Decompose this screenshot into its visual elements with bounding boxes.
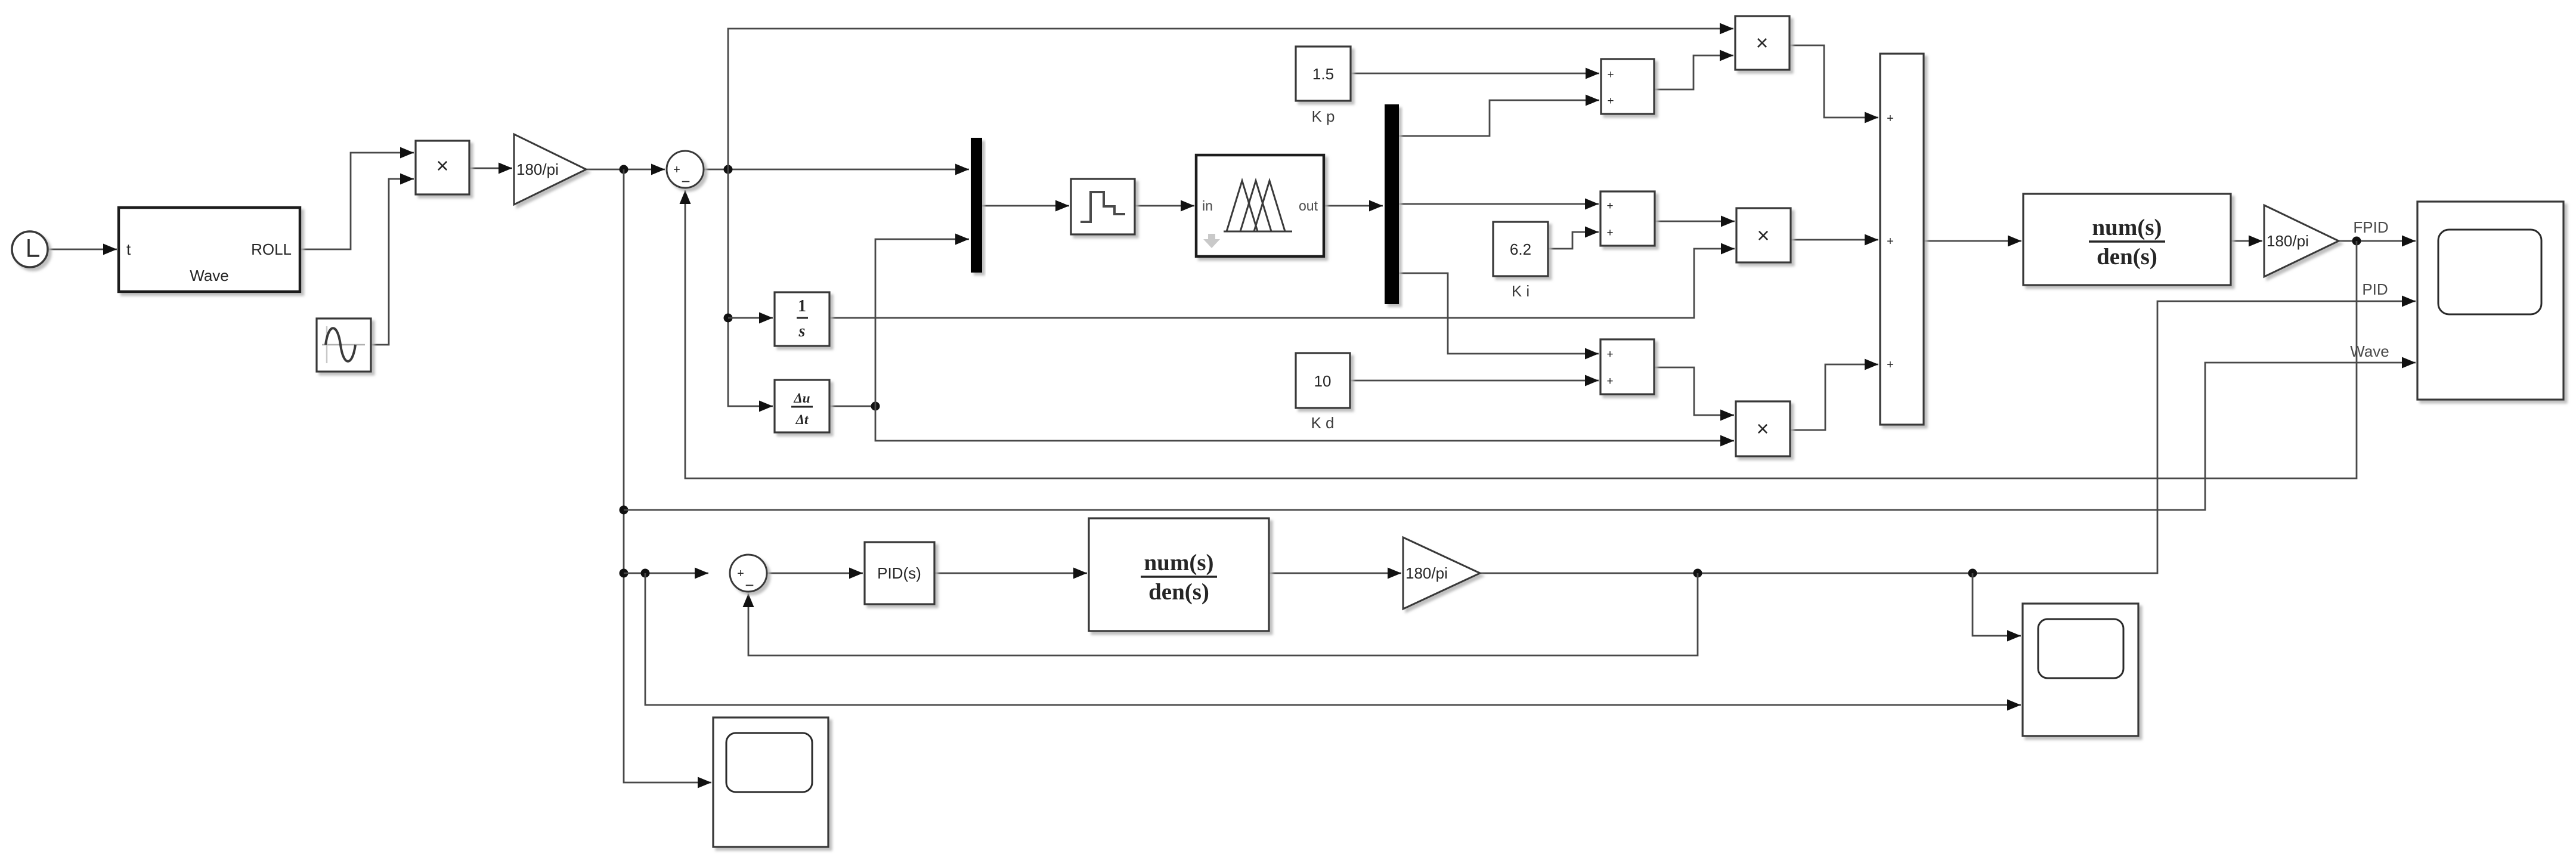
svg-text:FPID: FPID (2353, 218, 2388, 236)
wire Wave to scope2 in2 (645, 573, 2021, 711)
wire PID signal to scope2 in1 (1973, 573, 2021, 642)
transfer fcn num(s)/den(s) (2023, 194, 2231, 285)
svg-text:ROLL: ROLL (251, 240, 292, 258)
svg-text:PID(s): PID(s) (877, 564, 921, 582)
svg-text:+: + (673, 163, 680, 177)
wire Wave ROLL to product in1 (300, 147, 414, 250)
svg-text:Δt: Δt (795, 412, 809, 427)
wire demux out1 to sum A (1399, 95, 1599, 137)
wire sum A to product P (1654, 50, 1733, 90)
label K p (1311, 107, 1335, 125)
svg-text:+: + (737, 567, 744, 580)
wire constant Kp to sum A (1351, 68, 1599, 79)
svg-text:+: + (1606, 375, 1613, 388)
product X0 (416, 141, 469, 194)
fuzzy logic controller (1196, 155, 1324, 256)
svg-text:×: × (1756, 416, 1769, 441)
wire sum C to product D (1654, 367, 1734, 421)
wire constant Ki to sum B (1548, 227, 1599, 249)
svg-text:+: + (1606, 227, 1613, 239)
gain 180/pi G3 (2264, 205, 2339, 277)
wire product D to big sum in3 (1790, 359, 1878, 431)
wire integrator out to product Ki (829, 243, 1735, 318)
svg-text:+: + (1887, 358, 1894, 372)
svg-text:K i: K i (1512, 282, 1529, 300)
wire clock to Wave (48, 244, 117, 255)
wire mux to saturation (982, 200, 1069, 212)
gain 180/pi G2 (1403, 537, 1480, 609)
label Wave (2350, 342, 2389, 360)
subsystem Wave (119, 208, 300, 292)
wire transfer fcn 2 to gain 2 (1269, 568, 1401, 579)
wire Wave signal to scope1 (624, 357, 2416, 511)
wire fuzzy to demux (1324, 200, 1383, 212)
demux (1385, 104, 1399, 304)
wire gain to sum S1 (586, 164, 665, 175)
wire constant Kd to sum C (1350, 375, 1599, 386)
wire error to product Kp (top rail) (728, 23, 1733, 170)
svg-text:+: + (1887, 112, 1894, 125)
integrator 1/s (775, 292, 829, 346)
constant Kp 1.5 (1296, 47, 1351, 101)
wire product P to big sum in1 (1789, 45, 1878, 123)
svg-text:K d: K d (1311, 414, 1334, 432)
svg-text:out: out (1299, 198, 1318, 214)
svg-text:−: − (681, 172, 690, 190)
svg-text:t: t (126, 240, 131, 258)
svg-text:×: × (1757, 223, 1769, 248)
svg-text:180/pi: 180/pi (2267, 232, 2309, 250)
svg-text:in: in (1202, 198, 1213, 214)
wire demux out3 to sum C (1399, 273, 1599, 360)
wire transfer fcn to gain 180/pi (2231, 236, 2262, 247)
constant Ki 6.2 (1493, 222, 1548, 276)
sum A (Kp) (1601, 59, 1654, 114)
label PID (2362, 280, 2388, 298)
wire sine to product in2 (371, 174, 414, 345)
wire product I to big sum in2 (1791, 234, 1878, 246)
svg-text:×: × (1755, 30, 1768, 55)
product P (1735, 16, 1789, 70)
wire demux out2 to sum B (1399, 199, 1599, 210)
svg-text:Wave: Wave (190, 267, 229, 284)
svg-text:+: + (1887, 235, 1894, 248)
svg-text:s: s (798, 322, 806, 341)
wire big sum to transfer fcn (1924, 236, 2021, 247)
svg-text:+: + (1606, 200, 1613, 212)
sum block (3-input) (1880, 54, 1924, 425)
wire derivative to mux in2 (875, 234, 969, 407)
product I (1736, 208, 1791, 262)
scope Wave (713, 717, 828, 847)
sine wave source (317, 318, 371, 372)
label K i (1512, 282, 1529, 300)
quantizer block (1071, 179, 1135, 234)
wire sum S1 to mux (704, 164, 969, 175)
svg-text:−: − (745, 576, 754, 594)
svg-text:Δu: Δu (793, 391, 810, 406)
sum C (Kd) (1600, 339, 1654, 394)
svg-text:den(s): den(s) (2097, 244, 2157, 270)
svg-text:6.2: 6.2 (1510, 240, 1531, 258)
scope FPID/PID/Wave (2417, 202, 2563, 400)
svg-text:K p: K p (1311, 107, 1335, 125)
wire FPID feedback to sum S1 (680, 190, 2357, 478)
svg-text:num(s): num(s) (2092, 215, 2162, 240)
sum S2 (730, 555, 767, 594)
sum B (Ki) (1600, 191, 1655, 246)
wire error down to derivative (724, 169, 773, 412)
svg-text:den(s): den(s) (1148, 579, 1209, 605)
transfer fcn 2 num(s)/den(s) (1089, 518, 1269, 631)
wire error to integrator (728, 313, 773, 324)
svg-text:Wave: Wave (2350, 342, 2389, 360)
svg-text:1.5: 1.5 (1312, 65, 1334, 83)
svg-text:1: 1 (798, 297, 806, 316)
wire Wave signal to scope3 (620, 169, 712, 788)
scope PID loop (2023, 604, 2138, 736)
svg-text:+: + (1606, 348, 1613, 361)
wire sum S2 to PID (767, 568, 863, 579)
mux (971, 138, 982, 273)
constant Kd 10 (1296, 353, 1350, 408)
wire gain to scope FPID (2339, 236, 2416, 247)
svg-text:180/pi: 180/pi (516, 160, 559, 178)
derivative du/dt (775, 380, 829, 432)
svg-text:180/pi: 180/pi (1405, 564, 1448, 582)
PID controller PID(s) (865, 542, 934, 604)
svg-text:×: × (436, 153, 448, 178)
wire PID signal to scope1 (1480, 296, 2416, 578)
svg-text:+: + (1607, 69, 1614, 81)
wire derivative out junction (829, 402, 880, 411)
wire saturation to fuzzy (1135, 200, 1194, 212)
wire derivative to product Kd (875, 406, 1734, 447)
wire product to gain 180/pi (469, 163, 512, 174)
product D (1736, 401, 1790, 456)
wire sum B to product I (1655, 216, 1735, 227)
svg-text:num(s): num(s) (1144, 550, 1213, 576)
wire PID to transfer fcn 2 (934, 568, 1087, 579)
label FPID (2353, 218, 2388, 236)
wire Wave to sum S2 (624, 568, 708, 579)
gain 180/pi G1 (514, 134, 586, 205)
label K d (1311, 414, 1334, 432)
sum S1 (667, 151, 704, 190)
wire PID feedback to sum S2 (743, 573, 1698, 655)
clock source (12, 231, 48, 267)
svg-text:10: 10 (1314, 372, 1332, 390)
svg-text:+: + (1607, 95, 1614, 107)
svg-text:PID: PID (2362, 280, 2388, 298)
